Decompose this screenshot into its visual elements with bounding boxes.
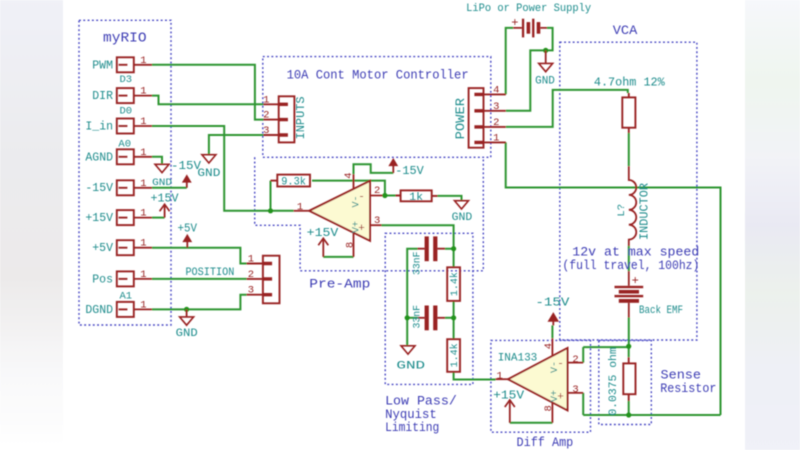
svg-text:1: 1: [140, 269, 146, 281]
svg-text:A0: A0: [118, 139, 131, 151]
svg-text:1.4k: 1.4k: [449, 272, 461, 296]
svg-text:myRIO: myRIO: [103, 32, 147, 47]
svg-text:3: 3: [248, 285, 254, 297]
svg-text:3: 3: [572, 384, 578, 396]
svg-text:1: 1: [140, 178, 146, 190]
svg-text:AGND: AGND: [85, 151, 113, 164]
svg-text:D0: D0: [119, 106, 132, 118]
svg-text:DGND: DGND: [85, 304, 113, 317]
svg-text:GND: GND: [176, 328, 198, 340]
svg-text:1k: 1k: [409, 192, 423, 204]
svg-text:33nF: 33nF: [412, 305, 424, 329]
svg-text:2: 2: [263, 110, 269, 122]
svg-text:1: 1: [140, 208, 146, 220]
svg-text:+15V: +15V: [307, 227, 339, 240]
svg-text:GND: GND: [152, 177, 172, 189]
svg-text:4: 4: [543, 343, 555, 349]
svg-text:-: -: [358, 192, 365, 204]
svg-text:INPUTS: INPUTS: [294, 96, 308, 139]
svg-text:-15V: -15V: [395, 165, 424, 178]
svg-text:L?: L?: [616, 204, 628, 217]
svg-text:LiPo or Power Supply: LiPo or Power Supply: [466, 3, 591, 15]
svg-text:1.4k: 1.4k: [449, 343, 461, 367]
svg-text:1: 1: [140, 86, 146, 98]
svg-text:(full travel, 100hz): (full travel, 100hz): [562, 259, 699, 273]
svg-text:+5V: +5V: [178, 223, 198, 236]
svg-text:+15V: +15V: [493, 389, 524, 402]
svg-text:1: 1: [140, 147, 146, 159]
svg-text:8: 8: [543, 405, 555, 411]
svg-text:+: +: [557, 392, 564, 404]
svg-text:10A Cont Motor Controller: 10A Cont Motor Controller: [287, 68, 469, 82]
svg-text:GND: GND: [452, 212, 473, 224]
svg-text:4: 4: [493, 84, 499, 96]
svg-text:Limiting: Limiting: [385, 421, 439, 435]
svg-text:33nF: 33nF: [412, 252, 424, 276]
svg-text:1: 1: [496, 370, 502, 382]
svg-text:-15V: -15V: [535, 297, 569, 310]
svg-text:PWM: PWM: [92, 59, 113, 72]
svg-text:POSITION: POSITION: [185, 267, 234, 279]
svg-text:1: 1: [263, 94, 269, 106]
svg-text:Diff Amp: Diff Amp: [517, 436, 574, 450]
svg-text:Pre-Amp: Pre-Amp: [309, 278, 370, 292]
svg-text:GND: GND: [535, 76, 555, 88]
svg-text:-15V: -15V: [171, 160, 201, 173]
svg-text:Resistor: Resistor: [660, 382, 716, 396]
svg-text:+: +: [358, 223, 365, 235]
svg-text:+5V: +5V: [92, 242, 113, 255]
svg-text:INA133: INA133: [498, 353, 538, 365]
svg-text:Nyquist: Nyquist: [385, 408, 437, 422]
svg-text:1: 1: [140, 299, 146, 311]
svg-text:4: 4: [343, 172, 355, 178]
svg-text:DIR: DIR: [92, 90, 113, 103]
svg-text:D3: D3: [119, 74, 132, 86]
svg-text:1: 1: [297, 201, 303, 213]
svg-text:2: 2: [493, 117, 499, 129]
svg-text:Back EMF: Back EMF: [639, 305, 683, 317]
svg-text:GND: GND: [396, 360, 425, 372]
svg-text:Low Pass/: Low Pass/: [385, 395, 457, 409]
svg-text:1: 1: [140, 238, 146, 250]
svg-text:Sense: Sense: [661, 369, 702, 383]
svg-text:12v at max speed: 12v at max speed: [572, 246, 699, 260]
svg-text:-: -: [557, 359, 564, 371]
svg-text:+15V: +15V: [151, 193, 179, 206]
svg-text:4.7ohm 12%: 4.7ohm 12%: [594, 77, 665, 90]
svg-text:1: 1: [248, 254, 254, 266]
svg-text:I_in: I_in: [85, 121, 113, 134]
svg-text:-15V: -15V: [85, 182, 113, 195]
svg-text:+: +: [511, 16, 518, 30]
svg-text:POWER: POWER: [454, 97, 468, 139]
svg-text:+: +: [632, 274, 639, 288]
svg-text:9.3k: 9.3k: [281, 176, 306, 188]
svg-text:1: 1: [140, 55, 146, 67]
svg-text:8: 8: [344, 242, 356, 248]
svg-text:A1: A1: [119, 291, 132, 303]
svg-text:VCA: VCA: [613, 24, 638, 38]
svg-text:1: 1: [140, 116, 146, 128]
svg-text:0.0375 ohm: 0.0375 ohm: [608, 347, 620, 416]
svg-text:2: 2: [374, 185, 380, 197]
svg-text:Pos: Pos: [92, 273, 113, 286]
svg-text:2: 2: [572, 354, 578, 366]
svg-text:2: 2: [248, 269, 254, 281]
svg-text:3: 3: [263, 125, 269, 137]
svg-text:1: 1: [493, 132, 499, 144]
svg-text:INDUCTOR: INDUCTOR: [639, 183, 652, 240]
svg-text:+15V: +15V: [85, 212, 113, 225]
svg-text:3: 3: [493, 101, 499, 113]
svg-text:3: 3: [374, 215, 380, 227]
